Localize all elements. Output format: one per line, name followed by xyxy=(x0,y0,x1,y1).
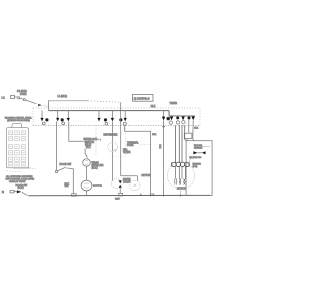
line side of timer box xyxy=(133,95,154,102)
aux dashed circle xyxy=(129,180,140,191)
neutral tick x141 xyxy=(140,194,141,196)
svg-text:(BLK): (BLK) xyxy=(92,167,98,170)
timer cam sw 9 triangle x171 xyxy=(170,117,173,121)
timer cam sw 13 triangle x193 xyxy=(192,117,195,121)
cam sw 12 contact dot x189 xyxy=(188,116,191,119)
wire N to door switch xyxy=(14,191,17,193)
svg-text:(VIEWED FROM REAR): (VIEWED FROM REAR) xyxy=(7,119,30,122)
cam sw 11 pivot circle xyxy=(182,121,185,124)
panel cell marks xyxy=(9,133,24,164)
fill valve contact mark xyxy=(114,149,118,153)
wire leader to line-side box xyxy=(49,100,89,102)
neutral connector box x74 xyxy=(72,194,77,196)
svg-text:L1: L1 xyxy=(2,96,6,100)
svg-text:DISPENSER: DISPENSER xyxy=(104,134,118,137)
cam sw 2 contact dot xyxy=(61,118,64,121)
svg-text:MOTOR: MOTOR xyxy=(177,188,186,191)
wire drop x163 long xyxy=(163,120,165,195)
wire thermostat to big box xyxy=(186,139,188,141)
wire fuse sloping to timer xyxy=(25,100,36,104)
interlock switch contact xyxy=(85,149,87,158)
svg-text:ALL SWITCHES SHOWN IN: ALL SWITCHES SHOWN IN xyxy=(6,175,33,178)
connector arrow P1 xyxy=(38,104,42,107)
control panel box xyxy=(6,128,28,168)
wire L1 bus 2 xyxy=(169,115,195,117)
wire drop door sw2 x56 xyxy=(56,121,58,170)
panel caption below xyxy=(6,175,35,183)
fill valve label xyxy=(123,149,131,155)
svg-text:VALVE: VALVE xyxy=(123,151,131,154)
control panel connector bump xyxy=(12,124,23,128)
wire drop x188 to thermostat xyxy=(188,120,190,134)
cam sw 1 contact dot xyxy=(45,118,48,121)
wire riser x48 xyxy=(48,100,50,110)
impeller labels xyxy=(92,161,104,169)
svg-text:VALVE: VALVE xyxy=(123,181,131,184)
timer cam sw 5: drop x112 xyxy=(111,111,114,122)
wire interlock drop x68 xyxy=(69,121,84,141)
fill valve coil mark xyxy=(111,143,113,152)
neutral connector box x120 xyxy=(119,193,123,196)
svg-text:WH: WH xyxy=(65,185,69,188)
svg-text:WHT: WHT xyxy=(115,198,120,200)
fill valve drop x112 xyxy=(111,121,113,142)
timer cam sw 6 contact dot x121 xyxy=(119,118,122,121)
neutral foot ticks xyxy=(151,194,181,196)
wire to motor xyxy=(86,166,88,180)
box connector triangles xyxy=(193,151,197,154)
timer cam sw 7: drop x163 xyxy=(162,111,165,121)
drain valve text xyxy=(123,178,131,184)
svg-text:BLK: BLK xyxy=(194,128,199,130)
svg-text:BLK: BLK xyxy=(159,145,161,150)
svg-text:FUSE: FUSE xyxy=(20,93,27,96)
node L1 terminal xyxy=(2,96,15,100)
panel switch grid row 3 xyxy=(8,145,25,149)
cam sw 10 pivot circle xyxy=(176,121,179,124)
door switch 2 xyxy=(55,167,66,173)
drain drop x121 xyxy=(120,102,122,176)
heater cluster verticals xyxy=(176,125,185,163)
dispenser dashed bottom dots xyxy=(110,156,126,158)
svg-text:N: N xyxy=(2,190,4,194)
aux circle inner marks xyxy=(133,184,136,187)
motor inner mark xyxy=(84,183,89,188)
motor dashed circle xyxy=(167,162,194,189)
wash select text xyxy=(127,142,151,148)
heater element end posts xyxy=(171,162,189,166)
wire hi-limit leader right xyxy=(195,146,211,148)
svg-text:FUSE: FUSE xyxy=(127,144,134,147)
wire motor to bus xyxy=(179,191,181,196)
svg-text:BLK: BLK xyxy=(151,105,156,108)
interlock NC wire xyxy=(92,139,101,141)
svg-text:N.O.: N.O. xyxy=(86,146,91,149)
washer control panel caption xyxy=(5,117,33,123)
svg-text:903 BLK 904: 903 BLK 904 xyxy=(189,157,202,159)
cam sw 2 pivot circle xyxy=(62,122,65,125)
door switch contact marks xyxy=(27,194,29,196)
panel lower dashes xyxy=(7,170,22,173)
svg-text:BLK: BLK xyxy=(152,134,157,136)
svg-text:TIMER: TIMER xyxy=(170,102,178,105)
wire drop x193 to box xyxy=(192,120,195,140)
label BLK WH xyxy=(65,183,70,189)
motor winding loops xyxy=(174,179,185,185)
node N terminal xyxy=(2,190,14,194)
door switch label xyxy=(16,184,28,191)
wire dots to timer edge xyxy=(44,106,49,107)
heater element row xyxy=(172,162,190,167)
neutral connector tick x152 xyxy=(151,194,154,196)
svg-text:MOTOR: MOTOR xyxy=(93,184,102,187)
cam sw 4 pivot circle xyxy=(105,122,108,125)
cam sw 10 contact dot x177 xyxy=(176,116,179,119)
cam sw 4 contact dot xyxy=(104,118,107,121)
timer box dashed outline xyxy=(33,108,200,125)
panel switch grid row 4 xyxy=(8,151,25,155)
svg-text:2) DETAILS: 2) DETAILS xyxy=(134,97,150,101)
dispenser dashed leader x96 xyxy=(95,125,97,157)
timer cam sw 2: drop x57 xyxy=(56,111,59,122)
svg-text:(903): (903) xyxy=(193,166,198,168)
wire into aux circle xyxy=(136,176,138,181)
heat sw corner x124 xyxy=(125,125,151,195)
fuse F1 xyxy=(18,97,26,101)
timer cam sw 4: drop x99 xyxy=(97,111,100,122)
wire sw2 to drop x73 xyxy=(68,168,74,194)
heater label xyxy=(193,163,202,169)
motor winding verticals xyxy=(176,167,186,179)
fill valve circle xyxy=(108,142,118,152)
svg-text:DOOR SW: DOOR SW xyxy=(60,163,72,166)
panel switch grid row 6 xyxy=(8,163,25,166)
panel switch grid row 2 xyxy=(8,137,25,141)
dispenser dashed right edge xyxy=(124,125,126,157)
svg-text:TIMER AT START: TIMER AT START xyxy=(9,180,26,183)
timer cam sw 1: drop x42 xyxy=(40,111,43,122)
cam sw 1 pivot circle xyxy=(42,122,45,125)
drain valve dashed circle xyxy=(111,179,121,189)
cam sw 8 contact dot xyxy=(167,117,170,120)
svg-text:L1 (BLK): L1 (BLK) xyxy=(58,95,68,98)
timer cam sw 11 triangle x183 xyxy=(181,117,184,121)
wire neutral bus xyxy=(29,194,211,196)
door switch arrow xyxy=(17,190,22,193)
drain valve solenoid blobs xyxy=(119,180,122,183)
panel switch grid row 5 xyxy=(8,157,25,161)
wire heater to box xyxy=(190,159,194,163)
wire fill valve down x112 xyxy=(111,152,113,181)
wire y176 to x137 xyxy=(121,175,138,177)
cam sw 9 pivot circle xyxy=(169,121,172,124)
svg-text:HEATER: HEATER xyxy=(194,146,203,149)
interlock text xyxy=(84,138,98,149)
wire L1 bus xyxy=(49,110,170,112)
wash impeller circle xyxy=(83,159,91,167)
right component box xyxy=(186,141,212,196)
timer cam sw 6 triangle x125 xyxy=(124,111,127,122)
svg-text:MOTOR: MOTOR xyxy=(142,174,151,177)
wire L1 to fuse xyxy=(15,96,18,98)
thermostat small box xyxy=(184,133,192,138)
svg-text:HEATER: HEATER xyxy=(193,163,202,166)
timer cam sw 3: drop x68 xyxy=(67,111,70,122)
panel switch grid row 1 xyxy=(8,131,25,135)
box inner wire between triangles xyxy=(197,152,202,154)
wire from panel bottom right xyxy=(13,167,30,169)
motor M1 xyxy=(81,180,92,191)
wire x184 corner into box xyxy=(185,140,186,141)
connector tick x163 xyxy=(162,126,164,128)
door switch blade xyxy=(22,192,27,195)
cam sw 6 pivot circle xyxy=(123,122,126,125)
wire motor to neutral xyxy=(86,191,88,196)
bus corner down x169 xyxy=(168,111,170,117)
drain valve wire to bus xyxy=(119,188,121,193)
